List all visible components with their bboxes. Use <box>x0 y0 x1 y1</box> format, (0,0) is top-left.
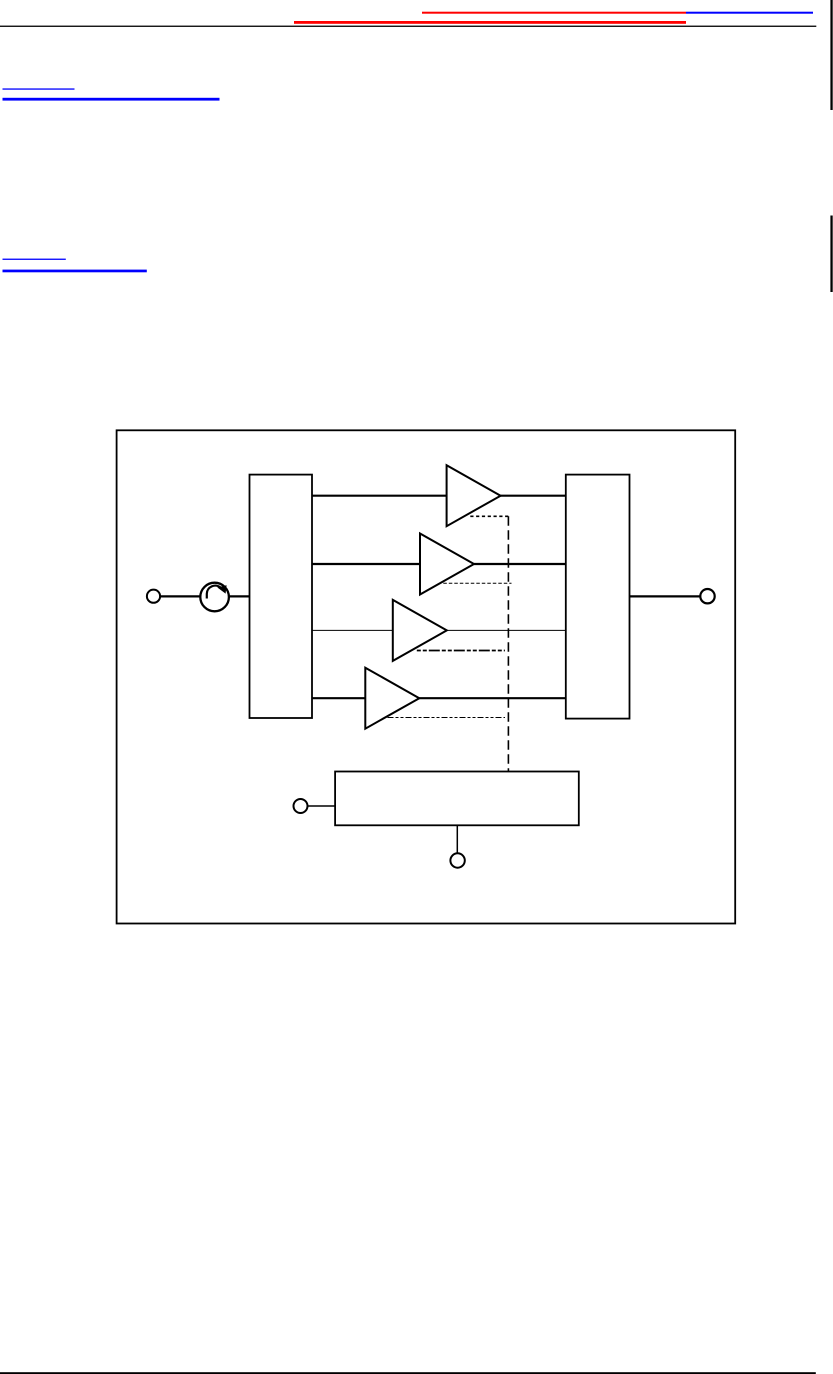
wire amp A4 to combiner <box>419 697 566 699</box>
revision change bar second <box>830 216 832 293</box>
amplifier A1 <box>447 465 501 526</box>
wire splitter to amp A2 <box>312 563 420 565</box>
wire input terminal to current source <box>160 595 200 597</box>
input terminal IN <box>147 590 160 603</box>
wire amp A3 to combiner <box>447 629 566 631</box>
bottom reference terminal <box>450 853 464 867</box>
wire control terminal to gain control box <box>308 805 336 807</box>
wire current source to splitter box <box>229 595 250 597</box>
current source clockwise arrow <box>207 585 227 598</box>
header red link rule upper <box>422 12 686 14</box>
gain control box <box>335 772 579 826</box>
output combiner box <box>566 475 630 719</box>
header red link rule left-center <box>294 21 686 24</box>
gain control input terminal <box>294 799 308 813</box>
dashed control tap to amp A2 <box>443 582 511 584</box>
wire gain control box to bottom terminal <box>456 825 458 853</box>
wire splitter to amp A1 <box>312 495 447 497</box>
wire combiner to output terminal <box>630 595 701 597</box>
current source circle <box>200 583 229 612</box>
amplifier A4 <box>365 668 419 729</box>
wire splitter to amp A4 <box>312 697 365 699</box>
amplifier A2 <box>420 534 474 595</box>
dashed control tap to amp A1 <box>470 515 509 517</box>
blue hyperlink underline long 2 <box>3 270 147 273</box>
dashed control tap to amp A3 <box>417 650 505 652</box>
input splitter box <box>250 475 313 718</box>
wire amp A1 to combiner <box>501 495 566 497</box>
output terminal OUT <box>700 589 714 603</box>
functional block diagram outer border <box>117 430 736 923</box>
header blue link rule upper right <box>686 12 813 14</box>
footer horizontal rule <box>0 1372 816 1374</box>
dashed gain control bus vertical <box>507 516 509 771</box>
wire splitter to amp A3 <box>312 629 393 631</box>
blue hyperlink underline long 1 <box>3 98 220 101</box>
dashed control tap to amp A4 <box>388 717 506 719</box>
blue hyperlink underline short 2 <box>3 259 66 260</box>
blue hyperlink underline short 1 <box>3 88 75 89</box>
wire amp A2 to combiner <box>474 563 566 565</box>
header horizontal rule <box>0 26 816 27</box>
revision change bar top right <box>830 0 832 110</box>
amplifier A3 <box>393 600 447 661</box>
